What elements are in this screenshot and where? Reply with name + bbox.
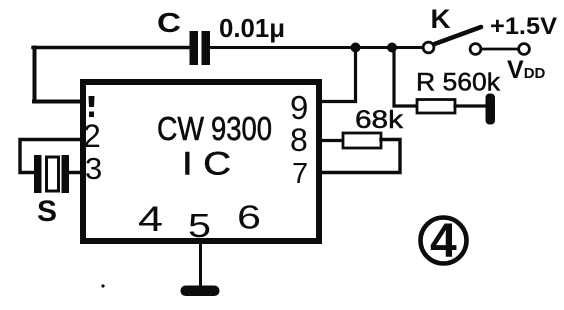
pin 1 mark	[89, 96, 95, 117]
svg-text:9300: 9300	[211, 110, 272, 147]
wire: capacitor to switch contact	[210, 46, 423, 49]
svg-text:4: 4	[138, 200, 163, 239]
svg-text:9: 9	[290, 89, 308, 126]
svg-text:68k: 68k	[355, 106, 404, 134]
wire: node A down to pin 9	[318, 48, 356, 102]
svg-text:4: 4	[430, 215, 457, 268]
wire: 68k resistor around to pin 7	[319, 140, 400, 173]
battery terminal bar (VDD)	[486, 94, 496, 125]
wire: pin 2 out left and down to resonator S	[20, 140, 84, 173]
svg-text:K: K	[431, 4, 452, 34]
switch K middle contact	[470, 44, 481, 55]
svg-text:2: 2	[83, 118, 101, 154]
terminal circle at +1.5V	[519, 44, 530, 55]
svg-text:CW: CW	[157, 110, 205, 147]
svg-text:S: S	[37, 195, 57, 228]
resistor R 560k body	[417, 100, 455, 114]
ground bar	[181, 286, 220, 297]
svg-text:3: 3	[85, 151, 102, 186]
wire: pin 8 to 68k resistor	[319, 139, 343, 142]
junction node A	[351, 43, 361, 53]
junction node B	[387, 43, 397, 53]
resonator S left plate	[34, 155, 42, 193]
wire: resonator S to pin 3	[69, 171, 84, 174]
wire: top rail from left corner to capacitor C	[33, 46, 190, 49]
resonator S right plate	[62, 155, 70, 193]
svg-text:VDD: VDD	[507, 56, 546, 84]
wire: node B down to resistor R	[394, 48, 417, 107]
svg-text:I C: I C	[182, 146, 231, 182]
svg-text:8: 8	[290, 122, 308, 158]
wire: pin 5 down to ground	[199, 243, 202, 288]
IC U1 CW9300 box	[83, 82, 319, 241]
switch K left contact	[423, 42, 434, 53]
wire: pin 1 horizontal into IC	[34, 100, 84, 104]
resistor 68k body	[343, 133, 381, 148]
figure number circle 4	[421, 218, 467, 264]
speck	[101, 284, 104, 287]
svg-text:5: 5	[188, 207, 211, 244]
svg-text:+1.5V: +1.5V	[490, 13, 557, 40]
svg-text:0.01μ: 0.01μ	[219, 13, 285, 43]
capacitor C right plate	[202, 31, 211, 65]
switch K lever	[435, 27, 482, 44]
svg-text:R 560k: R 560k	[416, 69, 501, 97]
resonator S body	[47, 157, 59, 191]
wire: top-left vertical from top rail down to pin 1	[33, 48, 37, 102]
wire: resistor R to battery bar	[455, 104, 487, 107]
svg-text:6: 6	[237, 199, 261, 236]
wire: middle contact to +1.5V terminal	[481, 48, 519, 51]
svg-text:C: C	[157, 7, 181, 38]
capacitor C left plate	[190, 31, 199, 65]
svg-text:7: 7	[292, 158, 308, 190]
